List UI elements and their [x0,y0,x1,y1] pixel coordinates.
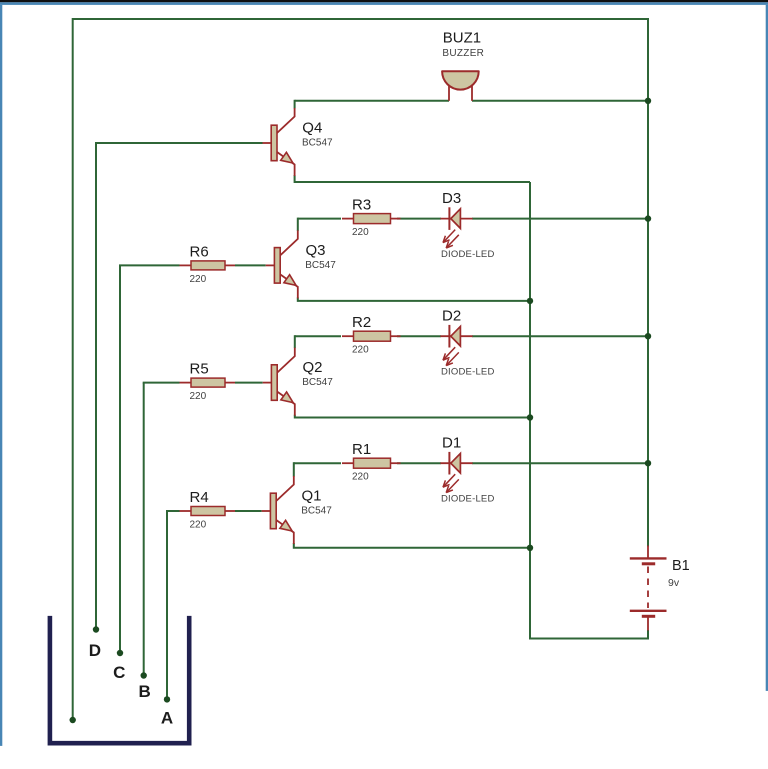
wire probe A vertical [166,511,168,699]
junction inner rail / Q1 emitter [527,545,533,551]
svg-text:R4: R4 [190,489,209,506]
wire R5 to Q2 base [235,382,263,384]
wire Q4 emitter to inner rail [295,175,530,182]
junction inner rail / Q3 emitter [527,298,533,304]
svg-text:220: 220 [190,274,207,285]
node probe A tip [164,696,170,702]
wire R4 to Q1 base [235,510,262,512]
svg-text:Q1: Q1 [302,487,322,504]
svg-text:220: 220 [352,345,369,356]
wire R1 to D1 [397,462,441,464]
svg-text:D1: D1 [442,435,461,452]
svg-text:R6: R6 [190,243,209,260]
svg-text:BC547: BC547 [302,377,333,388]
svg-text:R3: R3 [352,197,371,214]
battery B1 9v [630,546,690,631]
junction + rail / buzzer wire [645,98,651,104]
svg-text:B1: B1 [672,558,690,574]
junction inner rail / Q2 emitter [527,414,533,420]
wire probe C vertical [119,265,121,653]
transistor Q2 (BC547) [263,348,334,416]
wire Q3 collector to R3 [298,218,341,220]
svg-text:DIODE-LED: DIODE-LED [441,367,495,378]
wire Q1 collector to R1 [294,462,341,464]
svg-text:220: 220 [352,227,369,238]
wire Q2 collector to R2 [295,335,341,337]
wire Q2 collector vertical [294,335,296,348]
resistor R3 220 [342,197,401,239]
svg-text:A: A [161,708,173,727]
wire Q1 emitter to inner rail [294,543,530,548]
water tank container [50,616,189,743]
svg-text:9v: 9v [668,577,680,589]
svg-text:B: B [139,682,151,701]
wire top bus (+V to tank common) [73,18,648,20]
wire R2 to D2 [397,335,441,337]
svg-text:Q2: Q2 [303,359,323,376]
svg-text:D3: D3 [442,190,461,207]
wire bottom return to battery - [529,638,649,640]
resistor R4 220 [180,489,236,531]
resistor R1 220 [342,441,401,483]
svg-text:R5: R5 [190,361,209,378]
LED D1 (DIODE-LED) [440,435,494,505]
wire Q4 collector to buzzer [295,100,449,102]
wire battery - lead green [647,630,649,639]
svg-text:DIODE-LED: DIODE-LED [441,494,495,505]
svg-text:C: C [113,663,125,682]
transistor Q3 (BC547) [266,230,337,298]
svg-text:Q4: Q4 [302,119,322,136]
transistor Q4 (BC547) [263,108,334,176]
node probe B tip [141,672,147,678]
svg-text:D2: D2 [442,308,461,325]
buzzer BUZ1 [442,30,484,101]
resistor R5 220 [180,361,236,403]
wire D1 to + rail [472,462,648,464]
wire buzzer to + rail [472,100,648,102]
wire probe A to R4 [166,510,180,512]
wire Q3 emitter to inner rail [298,297,530,301]
svg-text:DIODE-LED: DIODE-LED [441,249,495,260]
svg-text:Q3: Q3 [306,242,326,259]
LED D3 (DIODE-LED) [440,190,494,260]
wire common probe vertical [72,18,74,720]
wire R6 to Q3 base [235,264,266,266]
transistor Q1 (BC547) [262,476,333,544]
svg-text:220: 220 [352,472,369,483]
svg-text:BUZZER: BUZZER [442,48,484,59]
svg-text:BC547: BC547 [301,505,332,516]
wire probe D vertical [95,143,97,630]
svg-text:R2: R2 [352,314,371,331]
svg-text:R1: R1 [352,441,371,458]
svg-text:220: 220 [190,520,207,531]
resistor R6 220 [180,243,236,285]
node probe C tip [117,650,123,656]
junction + rail / D3 wire [645,215,651,221]
wire outer + rail [647,18,649,547]
node common probe tip [70,717,76,723]
wire D2 to + rail [472,335,648,337]
wire inner emitter rail [529,182,531,639]
wire probe B vertical [143,383,145,676]
node probe D tip [93,626,99,632]
wire Q4 collector vertical [294,100,296,109]
svg-text:220: 220 [190,391,207,402]
LED D2 (DIODE-LED) [440,308,494,378]
svg-text:BUZ1: BUZ1 [443,30,481,47]
wire Q2 emitter to inner rail [295,415,530,418]
junction + rail / D2 wire [645,333,651,339]
wire Q1 collector vertical [293,462,295,476]
wire D3 to + rail [472,218,648,220]
svg-text:BC547: BC547 [302,137,333,148]
wire probe B to R5 [143,382,180,384]
wire R3 to D3 [397,218,441,220]
wire Q3 collector vertical [297,218,299,231]
svg-text:BC547: BC547 [305,260,336,271]
svg-text:D: D [89,641,101,660]
wire probe C to R6 [119,264,180,266]
junction + rail / D1 wire [645,460,651,466]
wire Q4 base from probe D [95,142,263,144]
resistor R2 220 [342,314,401,356]
